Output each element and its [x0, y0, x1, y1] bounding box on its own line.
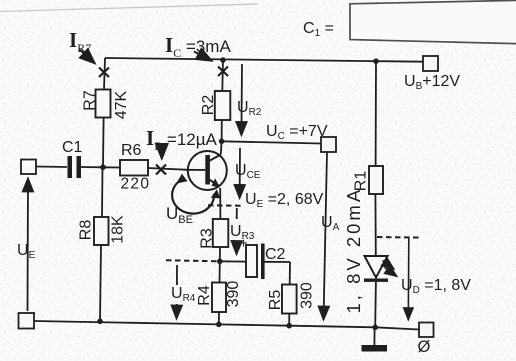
- resistor R6: [120, 142, 150, 193]
- terminal bottom left: [19, 313, 35, 329]
- resistor R5: [267, 282, 316, 313]
- terminal 0 bottom right: [419, 323, 434, 338]
- svg-text:390: 390: [225, 281, 242, 308]
- wire corner down to R5: [289, 262, 291, 285]
- arc UBE: [166, 174, 220, 226]
- wire R2 top from rail: [221, 60, 224, 91]
- wire junction to C2: [220, 260, 246, 262]
- node rail R1: [373, 58, 379, 64]
- ground: [362, 345, 388, 352]
- wire ground stub: [373, 327, 375, 345]
- resistor R8: [78, 215, 127, 245]
- wire R1 top from rail junction: [375, 61, 377, 166]
- wire base node to R6: [103, 166, 120, 168]
- svg-text:UD =1, 8V: UD =1, 8V: [401, 277, 471, 296]
- node rail R8: [97, 319, 103, 325]
- wire ground rail bottom: [34, 321, 419, 330]
- arrow UR4: [171, 265, 196, 319]
- node base: [100, 164, 106, 170]
- x mark collector current: [218, 67, 228, 77]
- label IC =3mA with arrow: [165, 33, 231, 61]
- resistor R3: [199, 219, 229, 249]
- arrow UE input left: [17, 178, 36, 311]
- resistor R7: [82, 90, 131, 120]
- capacitor C2: [240, 235, 286, 280]
- formula box top right: [350, 0, 516, 43]
- wire R7 bottom to base node: [102, 118, 105, 168]
- svg-text:R5: R5: [267, 290, 284, 311]
- wire input terminal to C1: [36, 166, 67, 169]
- resistor R4: [196, 281, 242, 312]
- wire R6 to transistor base: [148, 168, 188, 170]
- wire R8 bottom to ground rail: [100, 245, 101, 322]
- label IB =12uA with arrow: [146, 126, 218, 159]
- node emitter junction: [217, 259, 223, 265]
- X marks measurement points: [99, 67, 228, 175]
- wire top rail: [105, 58, 423, 62]
- resistor R1: [353, 166, 383, 194]
- svg-text:UB+12V: UB+12V: [404, 73, 460, 92]
- capacitor C1: [62, 139, 83, 178]
- arrow UCE: [235, 148, 261, 199]
- resistor R2: [200, 91, 230, 120]
- node rail R2: [220, 57, 226, 63]
- dashed line LED top level: [377, 236, 422, 239]
- svg-text:UC =+7V: UC =+7V: [266, 123, 328, 142]
- wire C2 to corner: [265, 261, 291, 263]
- wire R4 bottom to rail: [218, 312, 220, 324]
- node collector: [219, 139, 225, 145]
- wire collector node to UC terminal: [222, 141, 321, 143]
- svg-text:R2: R2: [200, 95, 217, 116]
- svg-text:18K: 18K: [110, 215, 127, 244]
- page top edge: [0, 4, 258, 12]
- dashed line emitter level: [208, 204, 243, 207]
- node rail R4: [216, 322, 222, 328]
- wire junction to R4: [219, 261, 221, 282]
- transistor Q1: [188, 151, 227, 190]
- wire R5 bottom to rail: [288, 314, 290, 326]
- arrow UD: [407, 238, 410, 321]
- wire emitter down to R3: [219, 188, 221, 219]
- svg-text:R4: R4: [196, 285, 213, 306]
- svg-text:C1: C1: [62, 139, 83, 156]
- svg-text:Ø: Ø: [418, 338, 431, 356]
- svg-text:220: 220: [121, 176, 151, 193]
- svg-text:47K: 47K: [113, 90, 130, 119]
- wire R2 bottom to collector node: [221, 120, 223, 141]
- svg-text:R6: R6: [121, 142, 142, 159]
- LED D1: [343, 187, 397, 314]
- arrow UR3: [230, 208, 255, 255]
- svg-text:390: 390: [299, 282, 316, 309]
- wire base node to R8: [101, 167, 104, 217]
- svg-text:R8: R8: [78, 220, 95, 241]
- svg-text:1, 8V 20mA: 1, 8V 20mA: [343, 187, 364, 314]
- wire LED bottom to ground rail: [374, 281, 377, 327]
- arrow UA: [321, 152, 340, 320]
- svg-text:R7: R7: [82, 90, 99, 111]
- svg-text:C2: C2: [265, 246, 286, 263]
- x mark base current: [156, 165, 166, 175]
- wire collector node down to transistor: [220, 141, 223, 154]
- arrow UR2: [237, 64, 262, 136]
- node rail R5: [286, 323, 292, 329]
- terminal UC +7V: [321, 137, 336, 152]
- wire R7 top: [104, 58, 105, 90]
- terminal UB +12V: [423, 56, 438, 71]
- wire R1 bottom to LED: [374, 194, 376, 256]
- wire R3 to emitter junction: [219, 247, 221, 261]
- node rail ground: [372, 325, 378, 331]
- dashed line R4 top level: [166, 260, 222, 261]
- x mark R7 current: [99, 68, 109, 78]
- wire C1 to base node: [81, 166, 103, 168]
- label IR7 with arrow: [69, 28, 95, 64]
- terminal input left: [21, 160, 36, 175]
- svg-text:R3: R3: [199, 228, 216, 249]
